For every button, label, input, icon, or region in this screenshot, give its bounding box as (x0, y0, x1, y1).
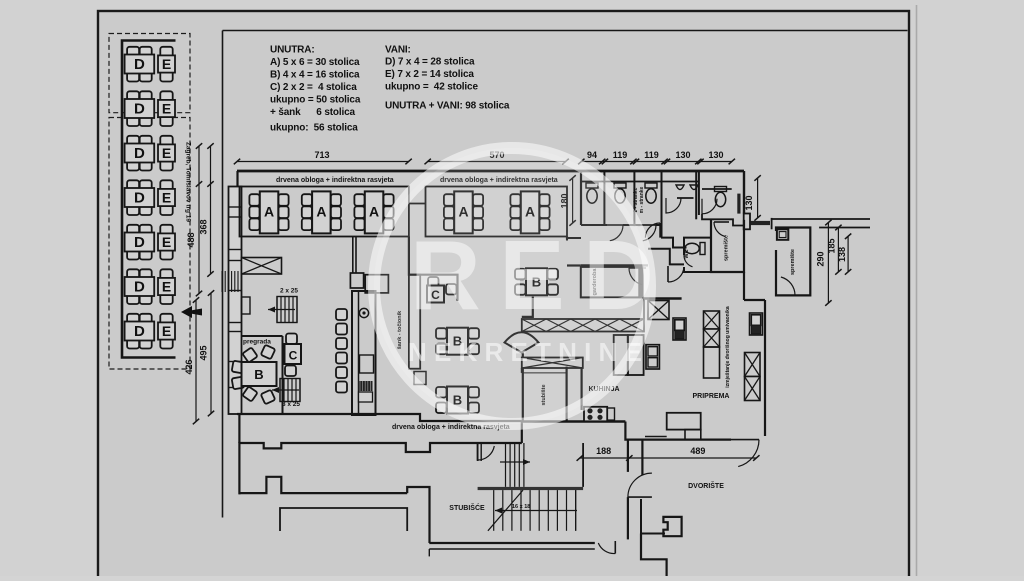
table D5 (125, 225, 155, 260)
svg-text:RED: RED (410, 220, 672, 330)
service counter strip (409, 275, 420, 369)
svg-text:PRIPREMA: PRIPREMA (693, 393, 730, 400)
wc inner top wall (581, 181, 699, 183)
corridor walls mid (661, 238, 687, 248)
svg-text:E: E (162, 234, 171, 250)
banquette zone 2 (426, 187, 568, 237)
svg-text:DVORIŠTE: DVORIŠTE (688, 481, 724, 490)
banquette2 SE wall (566, 237, 568, 240)
corridor south wall + garderoba (567, 264, 581, 266)
small stair down 3x25 (272, 379, 300, 402)
svg-text:drvena obloga + indirektna ras: drvena obloga + indirektna rasvjeta (276, 177, 394, 184)
wc west wall (580, 171, 582, 225)
svg-text:488: 488 (186, 232, 196, 247)
svg-text:290: 290 (816, 251, 826, 266)
urinal room south wall + door (677, 197, 694, 199)
stair hall west wall (407, 487, 429, 543)
radiator right of bar (414, 372, 426, 385)
table D4 (125, 180, 155, 215)
west facade pier strip (229, 187, 242, 415)
x-box single (648, 301, 669, 320)
x column mid (704, 311, 720, 378)
svg-text:119: 119 (613, 150, 628, 160)
dimension 426 (195, 300, 197, 422)
page sheet (98, 11, 909, 581)
dim 180 vertical (572, 178, 574, 223)
revolving door (505, 332, 539, 352)
table C left (285, 334, 302, 377)
table D7 (125, 314, 155, 349)
svg-text:E: E (162, 190, 171, 206)
prep window marks (645, 436, 667, 438)
dimension 368 (210, 146, 212, 274)
svg-text:94: 94 (587, 150, 597, 160)
kitchen west wall (580, 367, 582, 410)
svg-text:STUBIŠĆE: STUBIŠĆE (449, 503, 485, 512)
toilet 2 (614, 183, 626, 203)
table B upper (515, 268, 558, 295)
table C center (427, 277, 457, 303)
svg-text:B: B (254, 367, 263, 382)
lightwell outline (239, 443, 521, 494)
svg-text:D: D (134, 101, 145, 118)
svg-text:+ šank 6 stolica: + šank 6 stolica (270, 107, 356, 118)
bar sink circle (359, 308, 368, 317)
prep door arc (731, 440, 759, 467)
prep east wall (764, 300, 766, 436)
svg-text:368: 368 (199, 219, 209, 234)
svg-text:A: A (264, 203, 274, 219)
facade top wall (237, 170, 744, 173)
svg-text:3 x 25: 3 x 25 (282, 401, 300, 408)
table E2 (158, 91, 175, 126)
hatch strip2 left edge to kitchen (521, 368, 523, 373)
prep benches (667, 413, 701, 430)
entrance arrow (181, 306, 202, 318)
top dimension chain (237, 161, 409, 163)
table D2 (125, 91, 155, 126)
svg-text:119: 119 (644, 150, 659, 160)
svg-text:A: A (369, 203, 379, 219)
svg-text:ukupno = 42 stolice: ukupno = 42 stolice (385, 82, 478, 93)
svg-text:UNUTRA:: UNUTRA: (270, 45, 315, 56)
dim 130 wc (757, 178, 759, 218)
svg-text:A) 5 x 6 = 30 stolica: A) 5 x 6 = 30 stolica (270, 57, 360, 68)
wc small door (684, 255, 693, 267)
stair hall south wall double (429, 542, 595, 544)
street boundary top (223, 30, 908, 32)
bar dishwasher (360, 355, 374, 373)
stair east wall (582, 443, 584, 487)
banquette gap connector (409, 203, 426, 205)
svg-text:D: D (134, 190, 145, 207)
toilet ne (715, 187, 727, 207)
stove kitchen (584, 407, 615, 422)
courtyard column (663, 517, 681, 536)
svg-text:130: 130 (744, 195, 754, 210)
sink unit left (673, 318, 686, 340)
svg-text:E: E (162, 279, 171, 295)
east lower building edge (627, 440, 629, 472)
svg-text:C) 2 x 2 = 4 stolica: C) 2 x 2 = 4 stolica (270, 82, 357, 93)
terrace dashed zone 1 (109, 34, 190, 113)
svg-text:D) 7 x 4 = 28 stolica: D) 7 x 4 = 28 stolica (385, 57, 475, 68)
entry steps west (222, 271, 241, 292)
radiator on west wall (242, 297, 251, 314)
svg-text:130: 130 (675, 150, 690, 160)
spremiste 2 room (776, 228, 810, 296)
svg-text:VANI:: VANI: (385, 45, 411, 56)
svg-text:E: E (162, 56, 171, 72)
x column right (745, 353, 761, 401)
svg-text:426: 426 (184, 359, 194, 374)
svg-text:A: A (316, 203, 326, 219)
east entry corridor (772, 218, 870, 220)
banquette zone 1 (240, 187, 409, 237)
wc small toilet (685, 243, 705, 255)
terrace wall (122, 41, 176, 358)
svg-text:D: D (134, 323, 145, 340)
kitchen bottom wall (522, 420, 626, 422)
pregrada partition (242, 335, 283, 337)
stall bottom walls + doors (581, 224, 607, 226)
table B corner group (232, 345, 277, 405)
dark door bar (751, 221, 771, 225)
svg-text:NEKRETNINE: NEKRETNINE (408, 337, 649, 367)
svg-text:2 x 25: 2 x 25 (280, 288, 298, 295)
coffee station boxes (350, 273, 363, 288)
table E5 (158, 225, 175, 260)
stair room int (522, 372, 567, 374)
ne toilet room (702, 188, 732, 190)
svg-text:spremište: spremište (724, 235, 730, 261)
svg-text:Zagreb, Tomislavov trg 19: Zagreb, Tomislavov trg 19 (185, 142, 192, 222)
table E7 (158, 314, 175, 349)
crossed wardrobe box (242, 258, 282, 275)
svg-text:E) 7 x 2 = 14 stolica: E) 7 x 2 = 14 stolica (385, 69, 474, 80)
svg-text:D: D (134, 56, 145, 73)
svg-text:16 x 18: 16 x 18 (512, 504, 530, 510)
svg-text:izmještanje dvorišnog umivaoni: izmještanje dvorišnog umivaonika (725, 306, 731, 388)
wall kitchen-stairs south (625, 422, 642, 476)
svg-text:spremište: spremište (790, 249, 796, 275)
svg-text:ukupno = 50 stolica: ukupno = 50 stolica (270, 95, 361, 106)
svg-text:ukupno: 56 stolica: ukupno: 56 stolica (270, 123, 358, 134)
table E1 (158, 47, 175, 82)
svg-text:E: E (162, 323, 171, 339)
upper flight (500, 443, 530, 487)
door to stairs (477, 443, 479, 461)
bar stove dark (359, 381, 373, 402)
table B mid1 (436, 328, 479, 355)
svg-text:D: D (134, 145, 145, 162)
lightwell inner line (280, 508, 407, 531)
right dims (827, 223, 829, 304)
toilet 3 (645, 183, 657, 203)
dvoriste door arc (628, 473, 652, 497)
serving hatch X strip 2 (522, 358, 583, 369)
table D1 (125, 47, 155, 82)
bar stools (336, 309, 347, 320)
svg-text:130: 130 (708, 150, 723, 160)
prep bottom walls (642, 439, 731, 441)
wc corner post (744, 214, 750, 230)
toilet 1 (586, 183, 598, 203)
tables A row1 (249, 191, 288, 233)
svg-text:E: E (162, 101, 171, 117)
west lower facade (238, 414, 240, 443)
spremiste 1 room (711, 220, 744, 272)
door bottom center (614, 541, 616, 554)
watermark circle (374, 148, 650, 424)
svg-text:UNUTRA + VANI: 98 stolica: UNUTRA + VANI: 98 stolica (385, 101, 510, 112)
garderoba top wall (581, 264, 648, 266)
main flight (488, 490, 577, 531)
sink unit right (750, 313, 763, 335)
bar counter (352, 291, 376, 415)
svg-text:E: E (162, 145, 171, 161)
kitchen top wall (644, 297, 682, 299)
svg-text:B) 4 x 4 = 16 stolica: B) 4 x 4 = 16 stolica (270, 70, 360, 81)
garderoba room (581, 267, 640, 298)
landing bar (478, 487, 583, 490)
svg-text:D: D (134, 279, 145, 296)
wc small room (684, 238, 711, 255)
ne outer wall (743, 171, 745, 214)
table B mid2 (436, 387, 479, 414)
kitchen double sink (646, 345, 659, 369)
dining south wall (237, 414, 522, 421)
svg-text:713: 713 (314, 150, 329, 160)
spremiste 2 door (776, 277, 795, 295)
svg-text:pregrada: pregrada (243, 339, 271, 346)
svg-text:495: 495 (199, 345, 209, 360)
table E3 (158, 136, 175, 171)
wall below table B upper (522, 297, 533, 317)
tables A row2 (444, 191, 483, 233)
table D3 (125, 136, 155, 171)
serving hatch X strip 1 (522, 319, 644, 332)
terrace dashed zone 2 (109, 118, 190, 370)
dining to corridor opening (566, 240, 568, 241)
corridor-prep connector walls (743, 272, 745, 300)
svg-text:D: D (134, 234, 145, 251)
shaft box (777, 229, 788, 240)
svg-text:185: 185 (827, 238, 837, 253)
table D6 (125, 269, 155, 304)
dining east wall lower (522, 353, 524, 422)
garderoba door arc (629, 268, 646, 285)
kitchen island columns (614, 335, 628, 375)
bottom dims 188 489 (580, 457, 757, 459)
dimension 488 (198, 146, 200, 294)
table E6 (158, 269, 175, 304)
svg-text:C: C (289, 349, 298, 363)
street boundary left (222, 31, 224, 518)
svg-text:m - stranke: m - stranke (639, 186, 645, 213)
urinals (676, 185, 684, 190)
dimension 495 (210, 293, 212, 414)
table E4 (158, 180, 175, 215)
scanner shadow line (916, 5, 918, 576)
svg-text:489: 489 (690, 446, 705, 456)
wall over C (409, 237, 458, 301)
wc stall dividers (603, 171, 605, 225)
corridor east walls (648, 249, 684, 265)
x strip1 end wall (643, 299, 645, 320)
dark door bar vertical (737, 194, 740, 214)
svg-text:WC: WC (684, 249, 690, 258)
divider wall right (695, 171, 697, 219)
svg-text:138: 138 (837, 247, 847, 262)
svg-text:188: 188 (596, 446, 611, 456)
stairhall-kitchen wall (521, 421, 523, 443)
bar back counter link (352, 237, 354, 274)
small stair up 2x25 (268, 297, 297, 323)
urinal room door (659, 223, 661, 238)
